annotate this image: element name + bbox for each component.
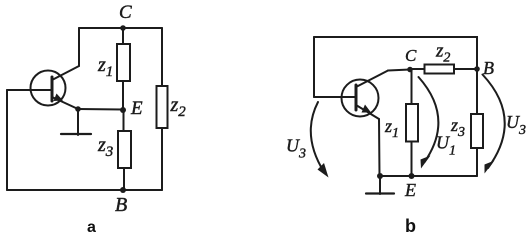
resistor Z2 (a)	[157, 86, 168, 128]
wire C to Z1 (b)	[411, 70, 413, 105]
wire left vertical a	[6, 90, 8, 190]
wire left vertical b	[313, 37, 315, 97]
svg-text:B: B	[115, 194, 127, 216]
resistor Z1 (a)	[117, 44, 130, 81]
svg-text:b: b	[405, 216, 416, 236]
wire top rail a	[79, 27, 162, 29]
wire emitter to E	[78, 108, 123, 111]
wire Z1 to E	[122, 81, 124, 110]
wire emitter down b	[378, 119, 381, 176]
wire C to Z2 (b)	[410, 68, 425, 70]
svg-text:E: E	[130, 98, 143, 119]
arrow U3 right (b)	[483, 75, 505, 174]
wire right branch top a	[161, 28, 163, 86]
ground a	[61, 109, 91, 135]
svg-text:a: a	[87, 219, 96, 236]
wire B to Z3 (b)	[476, 69, 478, 114]
node E (b)	[409, 173, 415, 179]
node emitter junction b	[377, 173, 383, 179]
wire Z3 to B	[123, 168, 125, 190]
node C (b)	[407, 67, 413, 73]
wire Z2 to B (b)	[454, 68, 477, 70]
wire E to Z3	[123, 110, 125, 131]
node C (a)	[120, 25, 126, 31]
arrow U1 (b)	[419, 77, 439, 169]
resistor Z1 (b)	[406, 104, 418, 142]
node B (b)	[474, 66, 480, 72]
wire top rail b	[314, 37, 477, 69]
ground b	[366, 176, 394, 194]
wire collector to C (b)	[388, 70, 410, 71]
svg-text:C: C	[119, 2, 132, 23]
wire right branch bottom a	[161, 128, 163, 190]
wire base lead b	[314, 96, 356, 98]
resistor Z3 (b)	[471, 114, 483, 148]
wire base lead a	[7, 89, 52, 91]
wire Z3 to bottom (b)	[476, 148, 478, 176]
node B (a)	[120, 187, 126, 193]
wire bottom rail a	[7, 189, 162, 191]
svg-text:C: C	[405, 46, 417, 65]
node E (a)	[120, 107, 126, 113]
transistor Q2	[342, 71, 389, 120]
node emitter junction a	[75, 106, 81, 112]
arrow U3 left (b)	[311, 102, 329, 178]
wire Z1 to E (b)	[411, 142, 413, 177]
wire collector riser a	[78, 28, 80, 66]
wire bottom rail b	[380, 175, 477, 177]
svg-text:E: E	[404, 180, 416, 200]
resistor Z3 (a)	[118, 131, 131, 168]
wire C to Z1	[122, 28, 124, 44]
transistor Q1	[31, 66, 80, 109]
resistor Z2 (b)	[425, 65, 455, 74]
svg-text:B: B	[483, 58, 494, 78]
